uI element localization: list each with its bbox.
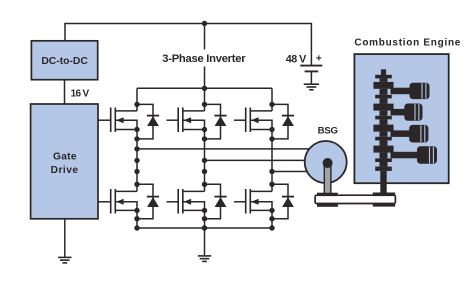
battery BT1: negative plate — [305, 70, 319, 72]
wire: Q5 drain feed from positive rail — [271, 88, 273, 111]
node: top rail tap junction — [202, 21, 207, 26]
transistor Q6 (low-side MOSFET, phase C) — [234, 189, 272, 214]
node: leg A mid junction — [134, 158, 139, 163]
shaft: BSG rotor shaft — [324, 162, 331, 195]
node: D5 anode junction — [269, 136, 274, 141]
wire: negative rail to ground — [204, 228, 206, 256]
node: D4 anode junction — [202, 216, 207, 221]
diode D2 (Q2 body diode) — [137, 184, 159, 218]
ground: gate drive — [58, 256, 71, 258]
transistor Q1 (high-side MOSFET, phase A) — [98, 108, 137, 133]
svg-text:48 V: 48 V — [286, 54, 307, 66]
wire: Q3 drain feed from positive rail — [204, 88, 206, 111]
node: Q4 source junction — [202, 208, 207, 213]
svg-text:BSG: BSG — [318, 125, 338, 136]
wire: inverter DC supply drop (lower segment) — [204, 67, 206, 89]
motor: BSG (belt starter generator) — [305, 141, 347, 183]
node: phase A takeoff junction — [134, 146, 139, 151]
wire: phase B output to BSG — [205, 159, 308, 161]
wire: inverter negative rail — [137, 227, 272, 229]
node: D6 anode junction — [269, 216, 274, 221]
svg-text:16 V: 16 V — [71, 89, 90, 100]
node: Q1 source junction — [134, 127, 139, 132]
pulley: BSG lower flange — [317, 203, 338, 207]
node: Q2 source junction — [134, 208, 139, 213]
piston 2 with connecting rod — [391, 104, 423, 121]
node: D2 anode junction — [134, 216, 139, 221]
node: leg B lower junction — [202, 169, 207, 174]
node: phase C takeoff junction — [269, 169, 274, 174]
transistor Q5 (high-side MOSFET, phase C) — [234, 108, 272, 133]
wire: 48 V top distribution rail — [65, 24, 311, 66]
node: Q6 source junction — [269, 208, 274, 213]
node: Q4 negative rail junction — [202, 225, 207, 230]
node: phase B takeoff junction — [202, 158, 207, 163]
wire: Q1 drain feed from positive rail — [136, 88, 138, 111]
svg-text:3-Phase Inverter: 3-Phase Inverter — [162, 53, 246, 65]
wire: phase C leg vertical — [271, 130, 273, 192]
pulley: engine lower flange — [373, 203, 395, 207]
battery BT1: positive plate — [300, 65, 322, 67]
shaft: crankshaft lower extension to pulley — [380, 171, 386, 195]
wire: phase A output to BSG — [137, 148, 312, 150]
wire: inverter DC supply drop (upper segment) — [204, 24, 206, 50]
transistor Q2 (low-side MOSFET, phase A) — [98, 189, 137, 214]
crankshaft (engine) — [373, 69, 393, 171]
svg-text:DC-to-DC: DC-to-DC — [41, 56, 88, 67]
node: leg A lower junction — [134, 169, 139, 174]
node: Q5 drain junction — [269, 102, 274, 107]
diode D6 (Q6 body diode) — [272, 184, 294, 218]
node: Q2 drain junction — [134, 182, 139, 187]
wire: phase C output to BSG — [272, 171, 310, 173]
block: Gate Drive — [31, 104, 98, 219]
node: Q6 drain junction — [269, 182, 274, 187]
diode D5 (Q5 body diode) — [272, 104, 294, 138]
hub: BSG shaft hub — [323, 158, 333, 168]
block: DC-to-DC converter — [31, 41, 97, 80]
wire: 16 V supply to gate drive — [64, 80, 66, 104]
transistor Q3 (high-side MOSFET, phase B) — [167, 108, 205, 133]
wire: inverter positive rail — [137, 87, 272, 89]
wire: Q6 source to negative rail — [271, 210, 273, 228]
wire: phase B leg vertical — [204, 130, 206, 192]
node: Q4 drain junction — [202, 182, 207, 187]
node: D3 anode junction — [202, 136, 207, 141]
svg-text:Drive: Drive — [51, 165, 79, 176]
wire: Q2 source to negative rail — [136, 210, 138, 228]
svg-text:+: + — [316, 53, 322, 64]
node: negative rail center junction — [202, 225, 207, 230]
piston 1 with connecting rod — [391, 83, 430, 99]
block: Combustion Engine housing — [354, 54, 448, 183]
pulley: engine upper flange — [373, 193, 395, 197]
node: D1 anode junction — [134, 136, 139, 141]
svg-text:Combustion Engine: Combustion Engine — [354, 38, 461, 49]
piston 3 with connecting rod — [391, 125, 429, 143]
node: Q2 negative rail junction — [134, 225, 139, 230]
diode D1 (Q1 body diode) — [137, 104, 159, 138]
wire: battery negative to ground — [310, 71, 312, 84]
svg-text:Gate: Gate — [53, 152, 77, 163]
node: positive rail center junction — [202, 86, 207, 91]
node: Q6 negative rail junction — [269, 225, 274, 230]
node: Q1 drain junction — [134, 102, 139, 107]
ground: inverter dc return — [198, 255, 211, 257]
piston 4 with connecting rod — [391, 146, 438, 163]
pulley: BSG upper flange — [317, 193, 338, 196]
wire: phase A leg vertical — [136, 130, 138, 192]
transistor Q4 (low-side MOSFET, phase B) — [167, 189, 205, 214]
diode D4 (Q4 body diode) — [205, 184, 227, 218]
belt: accessory drive belt — [315, 195, 395, 203]
node: Q3 source junction — [202, 127, 207, 132]
node: Q3 drain junction — [202, 102, 207, 107]
ground: battery return — [304, 83, 319, 85]
wire: gate drive ground lead — [64, 219, 66, 257]
diode D3 (Q3 body diode) — [205, 104, 227, 138]
node: Q5 source junction — [269, 127, 274, 132]
wire: Q4 source to negative rail — [204, 210, 206, 228]
